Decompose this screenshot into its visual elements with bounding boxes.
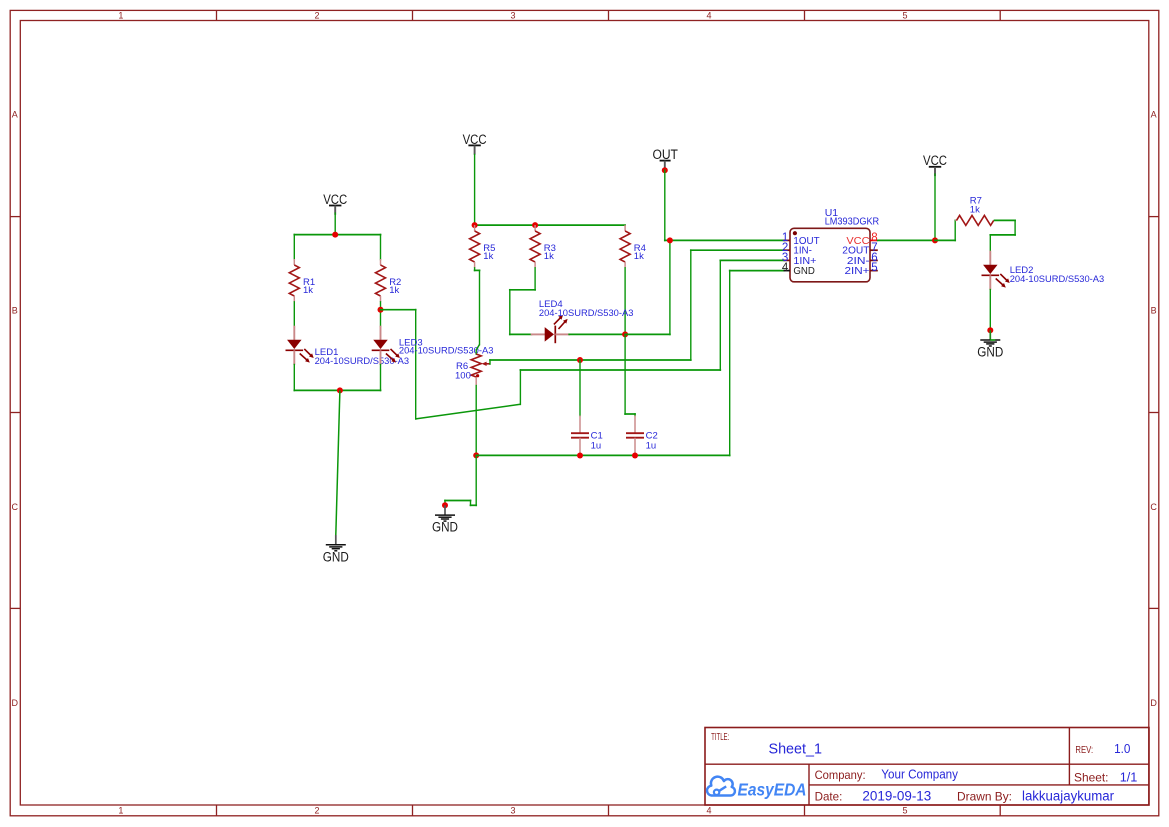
svg-text:3: 3 [510,11,515,21]
wire C1 top [579,359,581,416]
svg-text:2: 2 [314,11,319,21]
LED LED2 [982,251,1010,290]
svg-text:D: D [1150,698,1157,708]
potentiometer R6 [471,354,490,386]
wire VCC junction to R7 left [934,220,956,242]
net flag OUT [652,147,678,168]
svg-text:A: A [12,109,18,119]
junction R2-LED3 tap [378,307,384,313]
ground GND1 [323,535,349,564]
junction C1 bottom on GND bus [577,453,583,459]
wire U1 pin 8 to VCC3 [877,239,936,241]
svg-text:2IN+: 2IN+ [845,265,870,277]
svg-text:Sheet_1: Sheet_1 [769,741,823,757]
resistor R5 [470,225,480,268]
junction R6 on GND bus [473,452,479,458]
svg-text:B: B [1151,306,1157,316]
wire R3 to LED4 [509,267,536,335]
svg-text:1.0: 1.0 [1114,741,1130,756]
wire bottom rail to GND1 (slanted) [336,390,340,535]
junction C1 top on wiper wire [577,357,583,363]
svg-text:2019-09-13: 2019-09-13 [862,788,931,803]
capacitor C1 [571,416,589,456]
R2 labels [389,277,401,296]
resistor R3 [530,225,540,268]
wire R7 right to LED2 [989,220,1016,253]
title block Company value [881,768,958,782]
svg-text:A: A [1151,109,1157,119]
svg-text:1k: 1k [389,285,399,296]
R6 labels [455,361,471,382]
svg-text:5: 5 [871,262,877,274]
resistor R7 [955,215,994,225]
wire VCC3 down [934,173,936,241]
svg-text:GND: GND [977,345,1003,360]
svg-text:TITLE:: TITLE: [711,732,729,743]
junction bottom rail to GND [337,387,343,393]
wire VCC1 down to R1/R2 top rail [334,212,336,235]
LED3 labels [399,338,494,357]
svg-text:Drawn By:: Drawn By: [957,789,1012,803]
wire top rail to R1 [293,234,295,261]
svg-text:GND: GND [432,520,458,535]
junction OUT flag [662,167,668,173]
wire GND bus to U1 pin 4 (GND) [475,270,784,457]
R4 labels [634,243,646,262]
resistor R2 [376,259,386,302]
svg-text:B: B [12,306,18,316]
wire junction up to OUT node [624,240,671,336]
title block Date value [862,788,931,803]
U1 labels [825,207,880,227]
R3 labels [544,243,556,262]
wire R4/OUT down to C2 [624,334,636,417]
junction OUT branch [667,237,673,243]
R1 labels [303,277,315,296]
resistor R1 [289,259,299,302]
junction VCC2 on rail [472,222,478,228]
wire R2 to LED3 [380,301,382,327]
svg-text:Date:: Date: [815,789,843,803]
title block Date label [815,789,843,803]
svg-text:lakkuajaykumar: lakkuajaykumar [1022,788,1114,803]
svg-text:C: C [1150,502,1157,512]
svg-text:REV:: REV: [1075,744,1093,756]
U1 pin numbers [782,232,878,274]
svg-text:1: 1 [118,806,123,816]
wire R4 to OUT node rail [624,267,626,335]
wire LED2 to GND3 [989,289,991,331]
EasyEDA logo [707,777,806,800]
wire top rail R1-R2 [293,234,381,236]
LED4 labels [539,299,634,319]
svg-text:3: 3 [510,806,515,816]
wire rail R5-R3-R4 [474,224,626,226]
LED LED4 [531,315,570,343]
power flag VCC (left) [323,192,347,215]
op-amp U1 body and pins [784,228,878,281]
title block Company label [815,768,866,782]
wire R5 to R6 [474,267,481,355]
wire VCC2 down to R5/R3/R4 rail [474,154,476,226]
wire bottom rail R1-R2 branch [293,389,381,391]
title block REV label [1075,744,1093,756]
svg-text:1u: 1u [591,441,602,452]
power flag VCC (right) [923,153,947,176]
svg-text:C: C [11,502,18,512]
title block sheet name [769,741,823,757]
svg-text:5: 5 [902,11,907,21]
junction LED4/R4/OUT [622,331,628,337]
wire R6 bottom to GND bus [475,385,477,456]
svg-text:204-10SURD/S530-A3: 204-10SURD/S530-A3 [539,308,634,319]
svg-text:100: 100 [455,371,471,382]
R5 labels [483,243,495,262]
U1 pin names [793,235,870,277]
svg-text:GND: GND [793,265,815,277]
junction at GND3 [987,327,993,333]
C2 labels [646,431,658,452]
wire LED4 cathode to R4 junction [568,333,626,335]
wire LED3 to bottom rail [380,364,382,392]
svg-text:EasyEDA: EasyEDA [738,779,807,799]
svg-text:4: 4 [782,262,789,274]
svg-text:2: 2 [314,806,319,816]
LED1 labels [315,347,410,367]
C1 labels [591,431,603,452]
title block grid [705,728,1149,806]
title block REV value [1114,741,1130,756]
wire GND bus to GND2 with jog [444,455,477,507]
capacitor C2 [626,416,644,456]
junction C2 bottom on GND bus [632,453,638,459]
svg-text:Sheet:: Sheet: [1074,770,1109,784]
svg-text:D: D [11,698,18,708]
svg-text:1u: 1u [646,441,657,452]
ground GND3 [977,330,1003,359]
LED LED1 [286,326,314,365]
svg-text:4: 4 [706,806,711,816]
LED LED3 [372,326,400,365]
svg-text:GND: GND [323,549,349,564]
svg-text:Company:: Company: [815,768,866,782]
LED2 labels [1010,265,1104,285]
title block Sheet value [1120,769,1138,784]
svg-text:1k: 1k [634,251,644,262]
svg-text:LM393DGKR: LM393DGKR [825,215,880,227]
ground GND2 [432,505,458,534]
wire R1 to LED1 [293,301,295,327]
wire R2/LED3 tap to U1 pin 3 (1IN+) [380,260,785,420]
svg-text:1: 1 [118,11,123,21]
title block DrawnBy value [1022,788,1114,803]
wire OUT to U1 pin 1 (1OUT) [664,169,785,241]
title block Sheet label [1074,770,1109,784]
power flag VCC (middle) [463,132,487,155]
junction at GND2 [442,502,448,508]
svg-text:OUT: OUT [652,147,678,162]
title block DrawnBy label [957,789,1012,803]
wire top rail to R2 [380,234,382,261]
junction R3 on rail [532,222,538,228]
junction VCC3 / R7 [932,237,938,243]
svg-text:1k: 1k [970,205,980,216]
junction VCC1 on top rail [332,232,338,238]
svg-text:1k: 1k [303,285,313,296]
svg-text:1k: 1k [483,251,493,262]
wire R6 wiper to U1 pin 2 (1IN-) [489,249,785,365]
svg-text:1/1: 1/1 [1120,769,1138,784]
svg-text:1k: 1k [544,251,554,262]
svg-text:Your Company: Your Company [881,768,958,782]
wire LED1 to bottom rail [293,364,295,392]
R7 labels [970,196,982,216]
svg-text:204-10SURD/S530-A3: 204-10SURD/S530-A3 [1010,274,1104,285]
svg-text:5: 5 [902,806,907,816]
title block TITLE label [711,732,729,743]
svg-text:4: 4 [706,11,711,21]
resistor R4 [620,225,630,268]
